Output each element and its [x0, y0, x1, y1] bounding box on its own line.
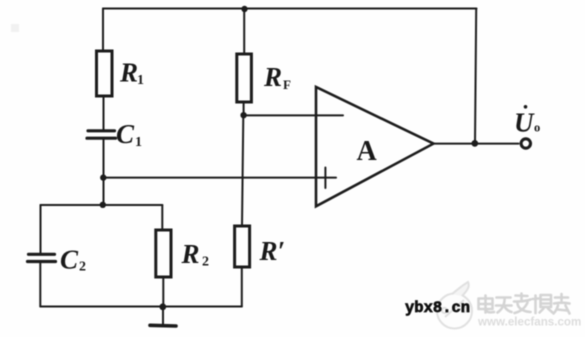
node box-top junction	[100, 202, 106, 208]
wire inverting input from node N	[244, 114, 343, 116]
wire R2 bottom lead	[162, 277, 164, 307]
svg-text:R′: R′	[259, 236, 286, 266]
op-amp U1 triangle	[316, 87, 434, 206]
wire top rail	[103, 8, 477, 10]
op-amp plus sign vertical	[324, 168, 326, 189]
node ground junction	[159, 303, 166, 310]
resistor R2	[156, 230, 171, 277]
wire R1 to C1	[103, 96, 105, 131]
node N junction	[240, 112, 246, 118]
resistor R1	[97, 51, 113, 96]
svg-text:2: 2	[79, 260, 86, 275]
capacitor C1	[87, 131, 116, 138]
capacitor C2	[28, 254, 56, 261]
logo elecfans swoosh (light gray)	[437, 282, 472, 329]
svg-text:A: A	[357, 136, 378, 167]
label Uo	[514, 105, 540, 138]
svg-text:ybx8.cn: ybx8.cn	[405, 299, 470, 317]
svg-text:U: U	[514, 108, 535, 138]
terminal Uo output circle	[521, 139, 530, 148]
watermark chinese characters 电子发烧友 (approximated strokes)	[479, 294, 570, 314]
wire C2 left vertical lower	[39, 262, 41, 307]
wire R' bottom lead	[241, 267, 243, 307]
wire RF bottom to node N	[243, 102, 245, 115]
wire R2 top lead	[161, 205, 163, 230]
svg-text:o: o	[534, 121, 540, 135]
svg-text:1: 1	[135, 135, 142, 150]
wire right vertical from top rail to output node	[475, 9, 476, 144]
svg-text:1: 1	[137, 73, 144, 88]
svg-text:2: 2	[202, 255, 209, 270]
svg-text:C: C	[116, 119, 135, 149]
wire C2 left vertical upper	[40, 205, 42, 254]
ground	[162, 307, 164, 325]
node P junction	[100, 174, 106, 180]
svg-text:C: C	[60, 245, 79, 275]
svg-text:R: R	[181, 239, 200, 269]
svg-text:www.elecfans.com: www.elecfans.com	[477, 316, 581, 329]
node top junction	[241, 6, 247, 12]
wire C1 down to node P	[103, 138, 105, 205]
svg-text:R: R	[119, 58, 138, 88]
wire non-inverting input from node P	[103, 177, 336, 179]
wire R1 top lead	[102, 9, 104, 52]
wire RF top lead	[243, 9, 245, 54]
resistor RF	[237, 54, 252, 102]
wire node N down to R'	[242, 115, 243, 226]
wire box top from C2 to R2	[41, 204, 163, 206]
wire op-amp output	[434, 143, 519, 145]
resistor R'	[235, 226, 250, 267]
wire bottom rail	[40, 306, 242, 308]
node output junction	[471, 140, 478, 147]
svg-text:R: R	[263, 62, 282, 92]
svg-text:F: F	[283, 77, 291, 92]
